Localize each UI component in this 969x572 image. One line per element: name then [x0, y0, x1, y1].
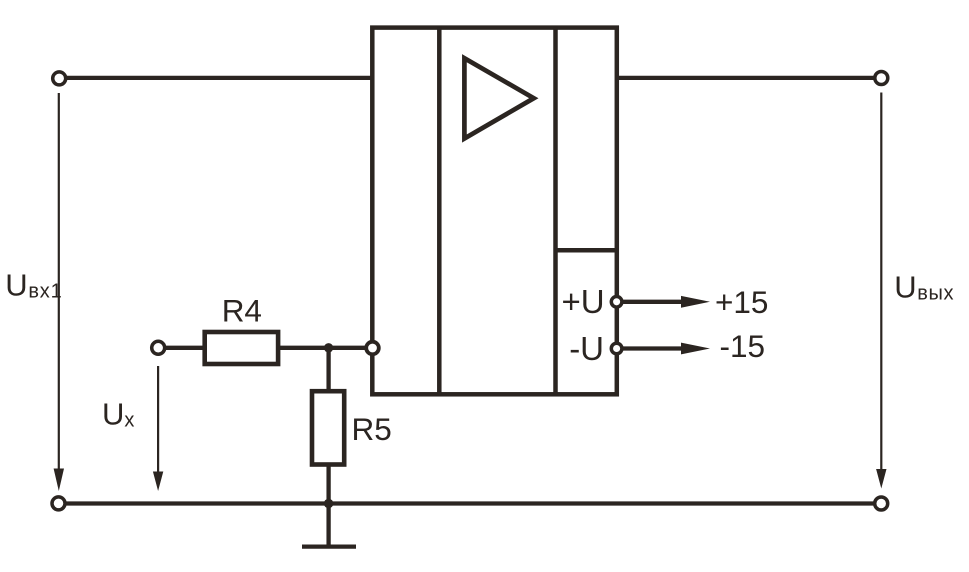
svg-text:+U: +U [562, 283, 605, 320]
svg-text:Uх: Uх [102, 397, 134, 432]
svg-text:-15: -15 [720, 328, 766, 364]
svg-text:-U: -U [569, 330, 604, 367]
svg-text:Uвх1: Uвх1 [5, 267, 62, 302]
svg-text:Uвых: Uвых [894, 270, 954, 305]
svg-text:R5: R5 [352, 411, 392, 447]
svg-text:R4: R4 [222, 293, 262, 329]
svg-text:+15: +15 [715, 284, 768, 320]
